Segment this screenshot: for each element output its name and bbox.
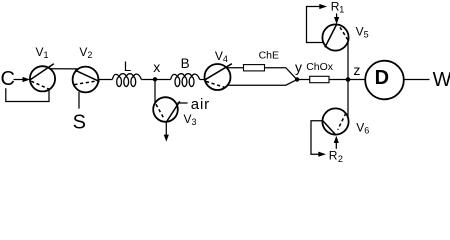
svg-text:R: R [329,148,338,162]
wire node z to detector D [348,79,365,81]
svg-text:2: 2 [338,154,343,163]
svg-text:L: L [124,59,132,74]
detector D [365,61,404,100]
wire coil B to V4 [200,79,205,81]
svg-text:D: D [375,67,389,89]
arrow R2 into V6 [334,136,339,149]
wire V1 to V2 [50,68,78,70]
wire R1 feed with arrow [307,4,328,43]
wire C recirculation loop [6,88,49,101]
label B [181,56,190,71]
node z [346,77,351,82]
wire ChOx to node z [329,79,348,81]
label V6 [356,121,369,136]
valve V3 [153,97,180,122]
wire node x down to V3 [154,80,156,104]
svg-text:V: V [356,121,364,135]
svg-text:y: y [295,59,302,75]
valve V6 [322,108,349,135]
svg-text:x: x [153,59,160,75]
label V4 [215,49,228,64]
svg-text:B: B [181,56,190,71]
label V5 [356,24,369,39]
label W [433,69,450,91]
wire V4 lower branch to node y [228,80,297,85]
node x [153,77,157,81]
arrow V3 waste outlet [164,122,169,142]
node y [295,77,299,81]
label V3 [184,112,197,127]
label V2 [79,45,92,60]
label L [124,59,132,74]
reactor ChOx [310,76,329,82]
svg-text:2: 2 [87,50,92,60]
label ChOx [306,61,334,73]
svg-text:1: 1 [44,50,49,60]
wire V2 to S [78,92,80,109]
wire V2 to coil L [99,79,113,81]
svg-text:C: C [1,68,15,90]
svg-text:6: 6 [364,126,369,136]
wire V5 to node z to V6 [347,41,349,118]
svg-text:ChOx: ChOx [306,61,334,73]
label S [73,111,86,133]
label ChE [259,50,279,62]
svg-text:V: V [184,112,192,126]
valve V2 [73,67,100,93]
arrow R1 into V5 [334,13,339,24]
wire D to W [404,79,430,81]
svg-text:z: z [353,62,360,78]
label C [1,68,15,90]
svg-text:4: 4 [223,54,228,64]
label z [353,62,360,78]
arrow C into V1 [14,77,31,82]
label V1 [36,45,49,60]
wire node y to ChOx [297,79,310,81]
label R1 [331,0,344,14]
svg-text:air: air [191,96,210,113]
svg-text:V: V [215,49,223,63]
svg-text:V: V [79,45,87,59]
svg-text:S: S [73,111,86,133]
reactor ChE [244,65,265,71]
valve V4 [205,64,232,90]
coil L [112,74,141,87]
coil B [171,74,200,87]
label y [295,59,302,75]
label air [191,96,210,113]
wire coil L to node x [141,79,170,81]
label R2 [329,148,343,164]
label x [153,59,160,75]
svg-text:ChE: ChE [259,50,279,62]
wire R2 feed with arrow [311,121,326,157]
svg-text:W: W [433,69,450,91]
valve V1 [30,64,55,92]
wire V4 upper branch to ChE [227,67,243,69]
valve V5 [322,24,348,51]
svg-text:3: 3 [192,117,197,127]
svg-text:5: 5 [364,29,369,39]
svg-text:V: V [36,45,44,59]
wire ChE to node y [265,68,297,80]
wire V3 to air [177,102,187,104]
svg-text:V: V [356,24,364,38]
svg-text:1: 1 [339,4,344,14]
